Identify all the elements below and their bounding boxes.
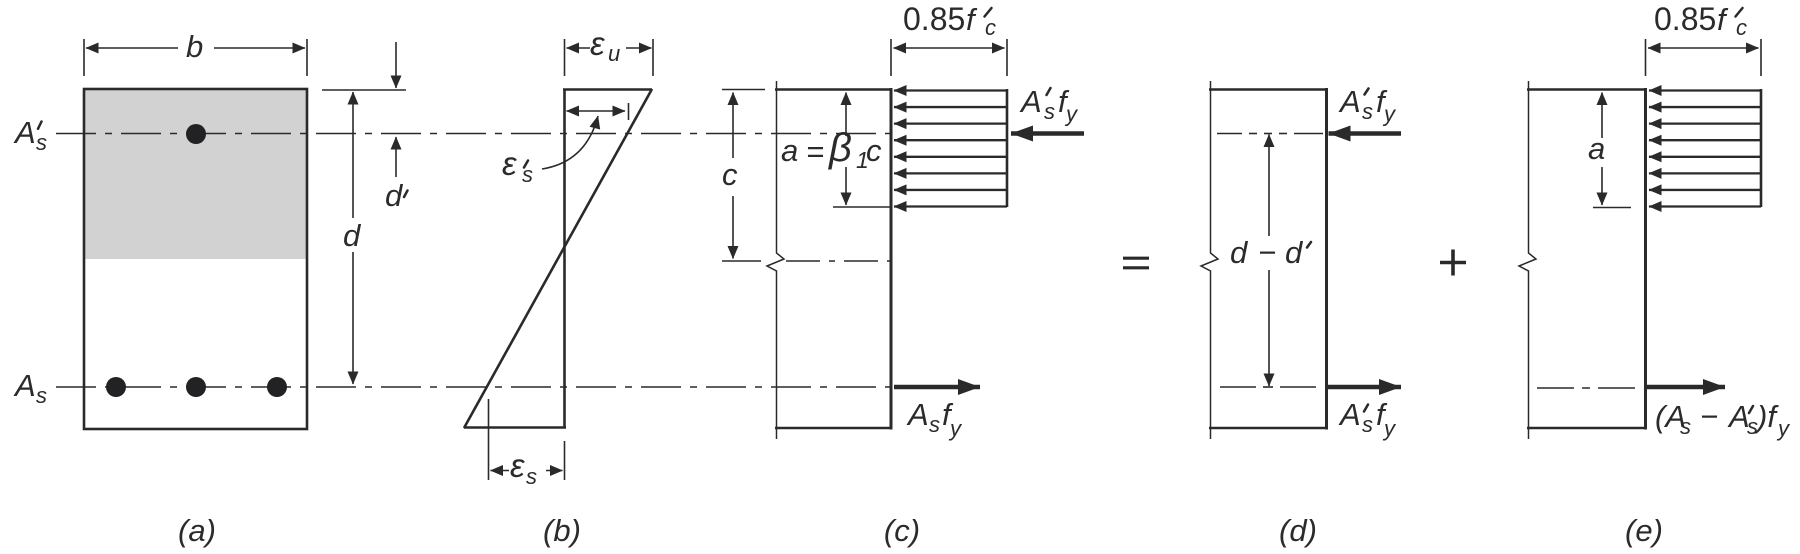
svg-text:(e): (e) (1625, 513, 1663, 548)
svg-text:−: − (1258, 235, 1276, 270)
svg-text:s: s (1680, 414, 1691, 439)
svg-text:s: s (1362, 99, 1373, 124)
svg-text:(d): (d) (1279, 513, 1317, 548)
svg-text:(b): (b) (543, 513, 581, 548)
svg-text:y: y (1064, 102, 1079, 127)
svg-text:c: c (866, 133, 882, 168)
svg-text:β: β (828, 126, 852, 170)
svg-text:a: a (781, 133, 798, 168)
svg-text:c: c (722, 157, 738, 192)
svg-text:d: d (1230, 235, 1249, 270)
svg-text:A: A (1338, 84, 1361, 119)
svg-text:0.85: 0.85 (903, 1, 965, 37)
svg-text:u: u (608, 41, 620, 66)
svg-text:(c): (c) (884, 513, 920, 548)
svg-text:a: a (1588, 131, 1605, 166)
svg-text:=: = (806, 134, 824, 169)
svg-text:s: s (1362, 412, 1373, 437)
svg-text:f: f (966, 2, 978, 37)
svg-text:)f: )f (1753, 399, 1779, 434)
svg-text:(a): (a) (178, 513, 216, 548)
svg-text:s: s (36, 383, 47, 408)
svg-text:s: s (526, 464, 537, 489)
svg-text:A: A (1019, 84, 1042, 119)
svg-text:d: d (385, 178, 404, 213)
svg-text:y: y (1382, 102, 1397, 127)
svg-text:s: s (1044, 99, 1055, 124)
svg-text:−: − (1700, 399, 1718, 434)
svg-text:y: y (948, 416, 963, 441)
svg-text:0.85: 0.85 (1654, 1, 1716, 37)
svg-text:d: d (1285, 235, 1304, 270)
svg-text:A: A (906, 397, 929, 432)
svg-text:ε: ε (590, 25, 605, 62)
svg-text:A: A (1338, 397, 1361, 432)
svg-text:y: y (1382, 416, 1397, 441)
svg-text:f: f (1717, 2, 1729, 37)
svg-text:b: b (186, 29, 203, 64)
svg-text:s: s (36, 130, 47, 155)
svg-text:A: A (13, 368, 36, 403)
svg-text:c: c (985, 15, 996, 40)
svg-text:ε: ε (510, 447, 525, 484)
svg-text:c: c (1736, 15, 1747, 40)
svg-text:A: A (13, 115, 36, 150)
svg-text:y: y (1776, 416, 1791, 441)
svg-text:s: s (929, 412, 940, 437)
svg-text:d: d (343, 218, 362, 253)
svg-text:ε: ε (502, 145, 517, 182)
